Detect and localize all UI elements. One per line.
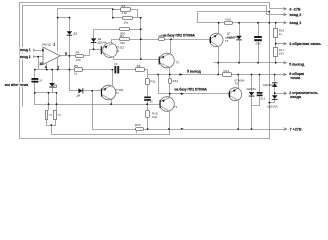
svg-text:зел жёлт точка: зел жёлт точка	[5, 83, 29, 87]
svg-text:5 выход: 5 выход	[187, 69, 202, 73]
wire pin2 stub	[275, 93, 287, 95]
transistor Q4	[210, 33, 223, 46]
wire D5 column	[52, 70, 54, 83]
svg-text:вход 2: вход 2	[290, 13, 302, 17]
svg-text:R20: R20	[135, 123, 141, 127]
capacitor C3 inline	[114, 66, 116, 73]
wire opamp out row	[61, 55, 76, 57]
diode D4 horizontal	[78, 88, 82, 93]
svg-text:вход 2: вход 2	[20, 55, 31, 59]
svg-text:на базу ПП1 КТ608А: на базу ПП1 КТ608А	[175, 87, 208, 91]
svg-text:КД105А: КД105А	[263, 83, 273, 87]
diode D5 with circle	[49, 83, 55, 87]
wire 7.5 res bottoms join	[47, 120, 56, 126]
wire +27 rail mid arrow	[181, 128, 184, 130]
svg-text:точка: точка	[290, 76, 301, 80]
pin 4 terminal	[283, 42, 321, 46]
transistor Q5	[229, 88, 242, 101]
op-amp U1 triangle	[43, 47, 60, 64]
wire input2	[34, 56, 44, 58]
svg-text:7,5: 7,5	[48, 114, 52, 117]
wire R3 row	[94, 29, 120, 31]
wire R18 column	[147, 105, 149, 111]
svg-text:вход 1: вход 1	[20, 48, 31, 52]
svg-text:750: 750	[120, 41, 125, 45]
svg-text:входа: входа	[290, 95, 302, 99]
capacitor C4	[254, 36, 262, 38]
pin 7 terminal	[284, 128, 302, 132]
wire pin4 stub	[276, 43, 287, 45]
svg-text:Д4: Д4	[77, 94, 81, 98]
diode D7	[236, 36, 242, 40]
pin vhod1 terminal	[283, 21, 301, 25]
resistor R3	[120, 28, 130, 31]
wire D7 column	[239, 23, 241, 36]
wire Q5 collector up to row G	[238, 75, 240, 89]
wire vhod2 stub	[267, 14, 287, 16]
wire Q3 collector up	[170, 40, 172, 54]
wire Q6 collector up	[169, 94, 171, 98]
svg-text:Т2: Т2	[116, 91, 120, 95]
svg-text:R1: R1	[122, 4, 126, 8]
wire C4 column	[258, 23, 260, 37]
wire Q4 collector	[218, 23, 220, 34]
svg-text:1: 1	[53, 43, 55, 47]
svg-text:5 выход: 5 выход	[289, 63, 305, 67]
wire pin7 drop	[57, 56, 59, 70]
resistor R9	[136, 68, 145, 72]
wire base row PP1 mid arrow	[181, 93, 184, 95]
resistor R20 inline bottom	[136, 128, 144, 131]
svg-text:Д3: Д3	[73, 31, 77, 35]
wire outer -27V loop	[20, 3, 270, 139]
wire +27 rail	[93, 129, 136, 131]
diode D6	[249, 92, 255, 96]
resistor R13 vertical	[169, 79, 172, 84]
svg-text:вход 1: вход 1	[290, 21, 302, 25]
wire Q2 emitter down	[111, 100, 113, 105]
resistor R1	[121, 8, 131, 12]
wire Q1 emitter row	[114, 58, 160, 60]
svg-text:Т3: Т3	[176, 61, 180, 65]
resistor R4	[120, 38, 130, 41]
svg-text:Д104А: Д104А	[98, 40, 107, 44]
wire top-left corner to R1 junction	[58, 9, 113, 52]
svg-text:R9: R9	[137, 64, 141, 68]
svg-text:100: 100	[152, 115, 157, 119]
svg-text:Т5: Т5	[225, 39, 229, 43]
resistor R15 7.5 left	[46, 111, 48, 120]
resistor R19 7.5 right	[54, 111, 57, 120]
wire R2 leads	[113, 17, 123, 19]
wire C5 D6 columns	[251, 75, 253, 92]
svg-text:С3: С3	[114, 62, 118, 66]
wire R11 column	[147, 75, 149, 79]
wire R1 leads	[113, 9, 121, 11]
wire Q4 emitter	[218, 47, 220, 63]
node label vhod1 left	[20, 47, 34, 52]
svg-text:КД105А: КД105А	[247, 87, 257, 91]
wire Q6 emitter down	[169, 112, 171, 130]
svg-text:R6: R6	[76, 51, 80, 55]
wire pin4 drop	[46, 64, 48, 70]
diode D3 top-left	[67, 31, 73, 35]
wire D4 to Q2 base	[93, 90, 102, 92]
wire base row Q1	[94, 49, 102, 51]
wire feedback column	[275, 23, 277, 29]
wire R14 drop from output	[218, 63, 220, 75]
svg-text:на базу ПП2 КТ908А: на базу ПП2 КТ908А	[163, 33, 196, 37]
transistor Q3	[160, 53, 175, 68]
wire R13 column	[169, 75, 171, 79]
wire limiter column	[274, 75, 276, 83]
resistor R10	[225, 22, 233, 25]
wire D1 column	[70, 18, 91, 91]
svg-text:КД105А: КД105А	[268, 105, 278, 109]
wire Q3 emitter down	[169, 68, 171, 75]
wire D2 column	[93, 30, 95, 50]
svg-text:100: 100	[279, 52, 284, 56]
svg-text:20,0: 20,0	[256, 42, 262, 46]
resistor R11 vertical	[146, 79, 150, 85]
resistor R16 vertical	[274, 29, 278, 38]
svg-text:Т1: Т1	[116, 49, 120, 53]
capacitor C6 vertical electrolytic	[144, 97, 151, 99]
svg-text:6 -27В: 6 -27В	[290, 7, 301, 11]
svg-text:15к: 15к	[124, 21, 129, 25]
resistor R2	[123, 17, 133, 20]
wire input1	[34, 50, 44, 52]
resistor R17 vertical	[274, 48, 278, 57]
wire R1R2 left junction	[112, 9, 114, 18]
svg-text:R4: R4	[120, 34, 124, 38]
wire R10 row right	[233, 22, 287, 24]
capacitor C2	[31, 78, 38, 80]
wire output row	[214, 62, 287, 64]
svg-text:R5: R5	[74, 64, 78, 68]
pin vhod2 terminal	[283, 13, 301, 17]
svg-text:Т4: Т4	[174, 105, 178, 109]
diode D8 limiter up	[272, 83, 278, 87]
pin 8 terminal	[283, 72, 304, 80]
wire pin6 stub	[270, 8, 287, 10]
svg-text:130: 130	[76, 58, 81, 62]
svg-text:5: 5	[65, 52, 67, 56]
resistor R18 vertical	[146, 111, 150, 118]
resistor R5 row F	[75, 68, 83, 72]
svg-text:4 обратная связь: 4 обратная связь	[289, 42, 321, 46]
node label vhod2 left	[20, 54, 34, 59]
resistor R8	[159, 38, 165, 41]
transistor Q6	[160, 97, 175, 112]
svg-text:R13: R13	[173, 79, 179, 83]
resistor R14	[223, 73, 232, 77]
wire C2 column	[34, 70, 36, 79]
wire R9 right to row G	[145, 70, 223, 75]
wire top right feed	[198, 11, 270, 13]
wire collector row Q1	[112, 40, 120, 44]
wire right mini rail	[140, 18, 142, 60]
svg-text:140УД1: 140УД1	[42, 42, 52, 46]
resistor R6	[76, 55, 84, 58]
svg-text:Т6: Т6	[235, 81, 239, 85]
wire Q2 collector up	[112, 70, 114, 86]
capacitor C5	[257, 92, 263, 94]
svg-text:7,5: 7,5	[57, 114, 61, 117]
wire pin10 drop	[38, 57, 40, 70]
wire row G mid arrow	[180, 73, 183, 75]
svg-text:20,0: 20,0	[260, 98, 265, 101]
wire seg y17.6	[58, 17, 70, 19]
diode D2	[91, 38, 97, 42]
wire row F feedback	[35, 69, 113, 71]
svg-text:R10: R10	[226, 18, 232, 22]
wire mid horizontal rail from C2 column	[35, 93, 161, 105]
wire drop row G to base row PP1	[159, 75, 230, 94]
pin 2 terminal	[284, 91, 319, 99]
transistor Q1	[103, 43, 118, 58]
wire D5 legs	[49, 92, 57, 94]
wire Q5 emitter down to +rail	[238, 101, 240, 130]
diode D9 limiter down	[272, 95, 278, 99]
transistor Q2	[101, 85, 116, 100]
svg-text:1,5к: 1,5к	[122, 11, 128, 15]
node label green-yellow dot	[4, 82, 32, 87]
svg-text:10: 10	[39, 62, 43, 66]
svg-text:7 +27В: 7 +27В	[290, 128, 302, 132]
wire drop to +rail	[92, 91, 94, 130]
svg-text:9: 9	[42, 48, 44, 52]
wire inner top rail	[23, 6, 267, 107]
svg-text:R14: R14	[224, 69, 230, 73]
pin 5 terminal	[283, 62, 304, 67]
pin 6 terminal	[283, 7, 301, 11]
wire row G right part	[232, 74, 287, 76]
svg-text:R11: R11	[150, 79, 156, 83]
